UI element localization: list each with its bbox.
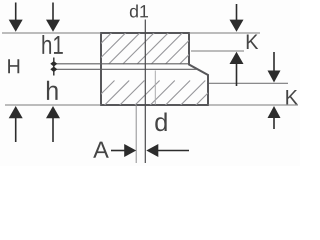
arrow down K top xyxy=(230,4,244,32)
centerline d1/d xyxy=(144,20,146,164)
hatching upper part xyxy=(97,32,190,64)
label d1 xyxy=(130,5,148,18)
extension line d left xyxy=(135,105,137,163)
extension line bottom-left (y=105) xyxy=(5,104,101,106)
label d xyxy=(155,113,166,132)
internal shoulder line upper xyxy=(56,63,189,65)
arrow up col2 bottom xyxy=(46,106,60,142)
arrow up K upper (below y=51) xyxy=(230,52,244,86)
H dimension stub + diamond arrowheads xyxy=(50,58,57,76)
label K lower xyxy=(286,90,297,104)
d arrow (points left) xyxy=(146,144,189,157)
A arrow (points right) xyxy=(111,144,136,157)
extension line top-left (y=33) xyxy=(2,32,101,34)
label h xyxy=(47,81,58,100)
arrow down col1 top xyxy=(9,3,23,32)
extension line top-right (y=33) xyxy=(189,32,260,34)
arrow down K lower (above y=83) xyxy=(268,52,281,83)
label h1 xyxy=(42,35,62,54)
label A xyxy=(93,142,109,158)
body cross-section xyxy=(101,33,208,105)
arrow up K lower (below y=105) xyxy=(268,106,281,129)
dimension line K lower (y=83) xyxy=(209,82,288,84)
faint bore edge line xyxy=(154,71,156,105)
label K upper xyxy=(247,35,258,49)
extension line bottom-right (y=105) xyxy=(208,104,298,106)
arrow up col1 bottom xyxy=(9,106,23,142)
label H xyxy=(8,59,19,73)
hatching lower part xyxy=(89,81,209,107)
arrow down col2 top xyxy=(46,3,60,32)
dimension line K upper (y=51) xyxy=(191,50,244,52)
internal shoulder line lower xyxy=(56,68,198,70)
